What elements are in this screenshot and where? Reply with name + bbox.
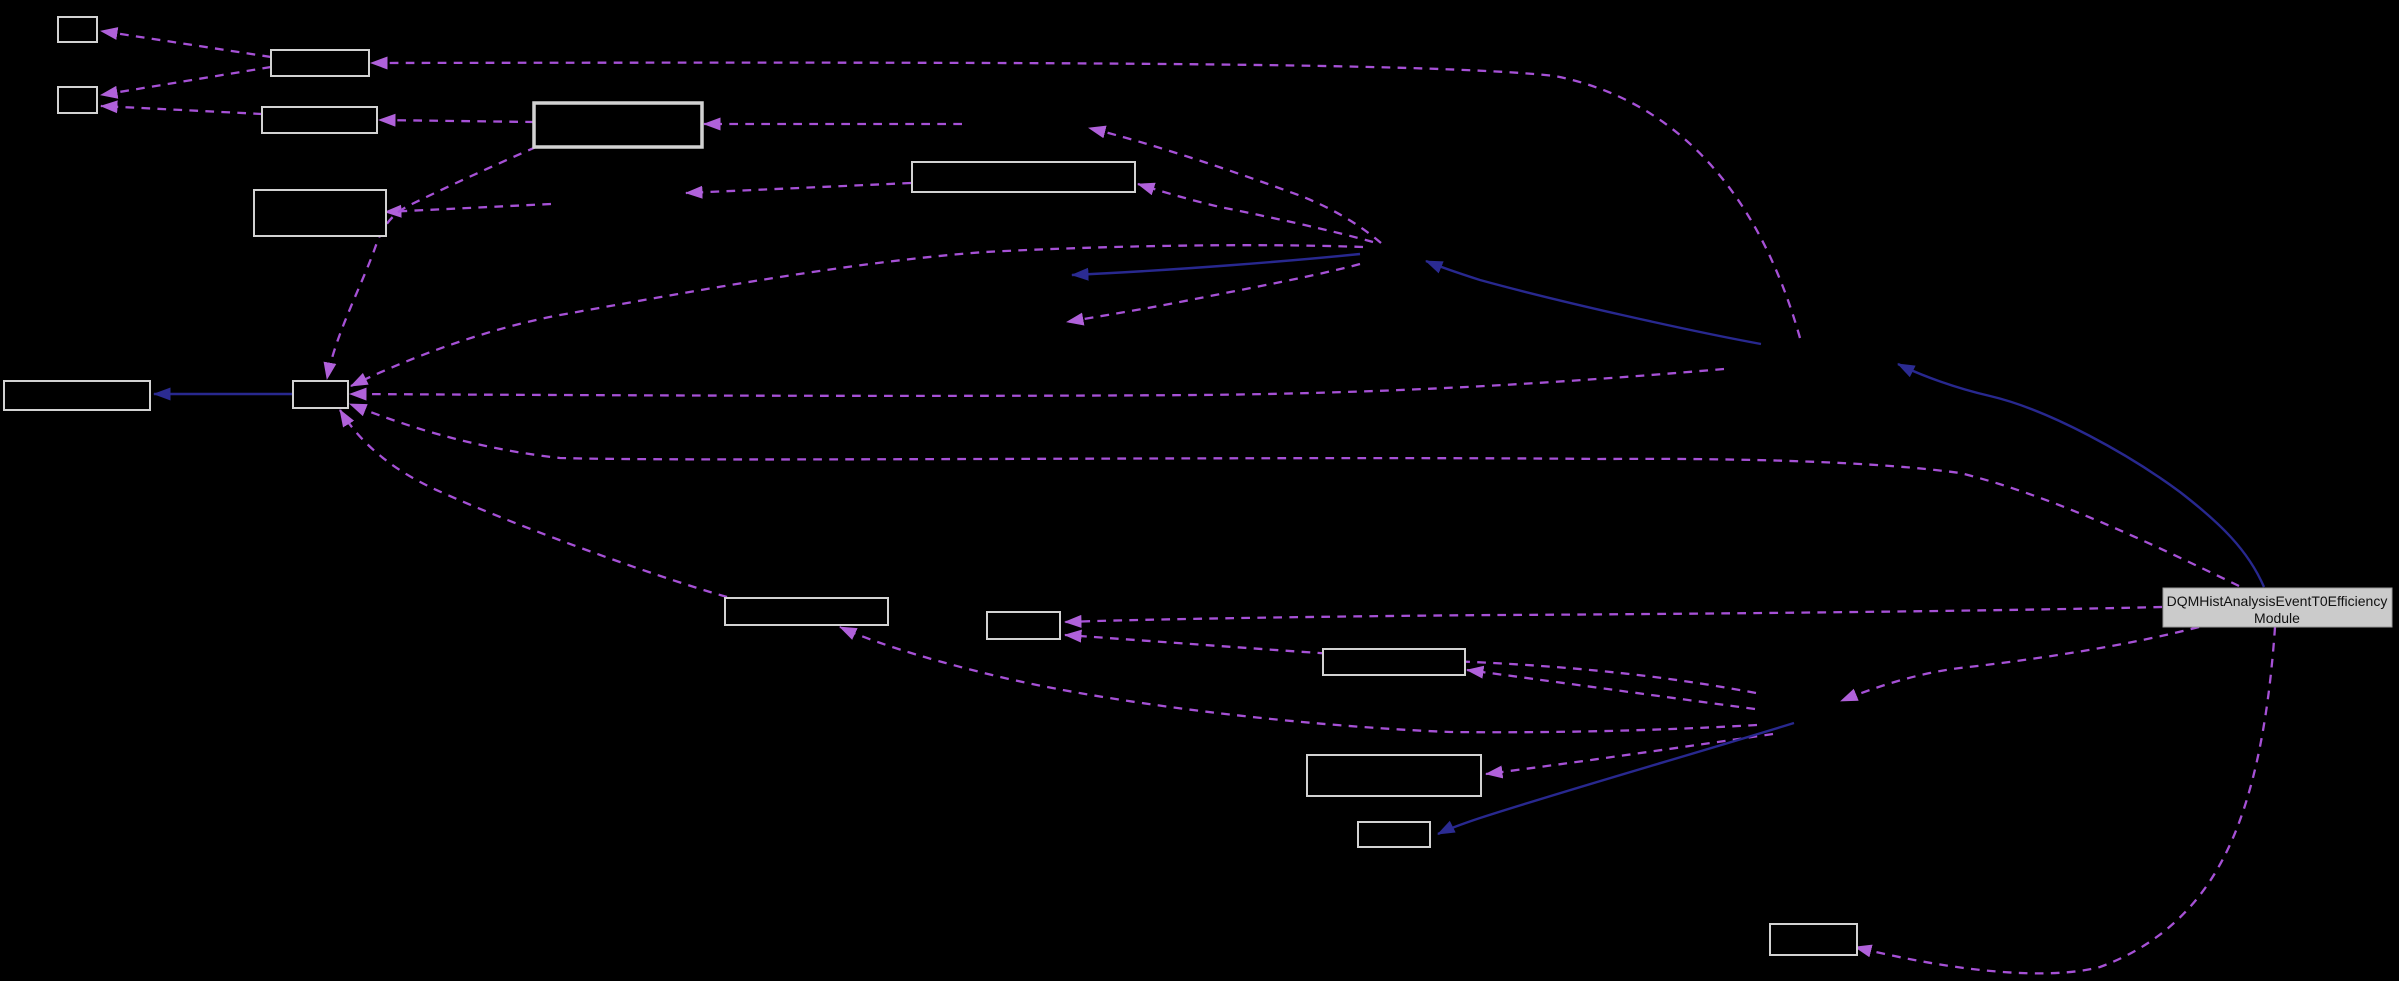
node M DQMHistAnalysisEventT0EfficiencyModule (2163, 588, 2392, 627)
wire B6 to IG (686, 183, 911, 193)
wire B5 to B4 (379, 120, 534, 122)
wire IC to ID2 (1067, 264, 1360, 322)
svg-text:DQMHistAnalysisEventT0Efficien: DQMHistAnalysisEventT0Efficiency (2167, 593, 2388, 609)
wire M to IF (1841, 627, 2199, 701)
wire B10 to H (340, 410, 727, 597)
node B15 (1770, 924, 1857, 955)
wire IC to H (351, 245, 1363, 386)
wire IC to B6 (1138, 184, 1373, 242)
wire M to H (350, 404, 2239, 586)
node B8 (4, 381, 150, 410)
wire blue H to B8 (154, 393, 292, 395)
node B10 (725, 598, 888, 625)
node B13 (1307, 755, 1481, 796)
wire IE to B2 long top (371, 63, 1800, 338)
wire IE to H (350, 369, 1724, 396)
wire B4 to B3 (101, 106, 262, 114)
node B6 (912, 162, 1135, 192)
wire IF to B13 (1486, 734, 1773, 774)
wire B5 to H (327, 147, 536, 379)
node B4 (262, 107, 377, 133)
wire blue IE to IC (1426, 261, 1761, 344)
svg-text:Module: Module (2254, 610, 2300, 626)
node B12 (1323, 649, 1465, 675)
wire IA to B5 (704, 123, 962, 125)
node B5 (534, 103, 702, 147)
node B14 (1358, 822, 1430, 847)
node B3 (58, 87, 97, 113)
node B1 (58, 17, 97, 42)
wire B2 to B3 (101, 67, 271, 95)
node B7 (254, 190, 386, 236)
node H (293, 381, 348, 408)
node B11 (987, 612, 1060, 639)
wire blue IC to ID (1072, 254, 1360, 275)
wire IG to B7 (385, 204, 551, 212)
wire IC to IA (1089, 128, 1381, 243)
node B2 (271, 50, 369, 76)
wire blue M to IE (1898, 364, 2264, 587)
wire IF to B12 (1467, 670, 1755, 709)
wire blue IF to B14 (1438, 723, 1794, 834)
wire B2 to B1 (101, 31, 271, 57)
wire M to B11 (1065, 607, 2162, 622)
wire IF to B10 (840, 627, 1757, 732)
wire IF to B11 (1065, 635, 1756, 693)
wire M to B15 (1855, 627, 2275, 973)
